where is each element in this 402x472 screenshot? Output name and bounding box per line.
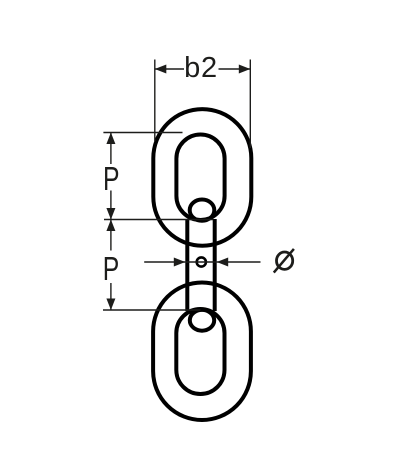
dimension P lower extension line (bottom) — [103, 309, 201, 311]
dimension b2 left extension line — [154, 60, 156, 142]
dimension P lower line segment below label — [110, 283, 112, 310]
dimension diameter right arrowhead — [217, 258, 229, 267]
chain link L1 (top, front view) outer outline — [153, 109, 251, 246]
chain link L2 centre mark circle — [197, 257, 206, 266]
dimension b2 line left segment — [155, 68, 184, 70]
dimension P lower line segment above label — [110, 220, 112, 251]
dimension P upper bottom arrowhead — [106, 208, 115, 220]
dimension diameter line centre segment through link — [185, 261, 216, 263]
chain link L2 bottom end cap — [190, 310, 214, 331]
chain link L2 right bar — [213, 219, 217, 311]
dimension b2 line right segment — [219, 68, 251, 70]
dimension diameter label (slashed O) ring — [277, 252, 293, 269]
dimension P lower top arrowhead — [106, 220, 115, 232]
chain link L2 top end cap — [190, 200, 215, 221]
dimension P upper line segment below label — [110, 191, 112, 220]
dimension P shared extension line (middle) — [104, 219, 213, 221]
dimension diameter label slash — [274, 249, 294, 273]
dimension b2 right arrowhead — [239, 65, 251, 74]
chain link L3 inner outline — [176, 309, 224, 394]
dimension diameter line right segment — [217, 261, 261, 263]
dimension P lower bottom arrowhead — [106, 299, 115, 311]
svg-text:b2: b2 — [184, 52, 218, 84]
dimension b2 left arrowhead — [155, 65, 167, 74]
chain link L2 (middle, edge view) left bar — [185, 219, 189, 311]
chain link L3 (bottom, front view) outer outline — [153, 283, 251, 421]
svg-text:P: P — [103, 160, 120, 197]
dimension diameter line left segment — [144, 261, 185, 263]
dimension diameter left arrowhead — [174, 258, 186, 267]
dimension P upper extension line (top) — [103, 132, 182, 134]
chain link L1 inner outline — [176, 135, 224, 221]
dimension P upper top arrowhead — [106, 133, 115, 145]
svg-text:P: P — [103, 250, 120, 287]
dimension b2 right extension line — [249, 60, 251, 149]
dimension P upper line segment above label — [110, 133, 112, 165]
